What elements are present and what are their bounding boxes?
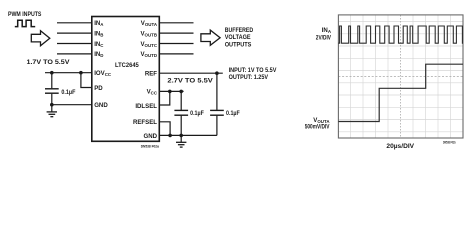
wire INC input	[57, 43, 92, 45]
svg-text:500mV/DIV: 500mV/DIV	[305, 123, 331, 130]
svg-text:VOLTAGE: VOLTAGE	[225, 34, 252, 41]
ground symbol left	[51, 105, 53, 112]
svg-text:VCC: VCC	[147, 89, 158, 96]
node junction PD tap	[79, 71, 83, 75]
node junction REF / C3	[215, 71, 219, 75]
node junction GND/C2	[179, 134, 183, 138]
svg-text:DN538 F02b: DN538 F02b	[443, 140, 456, 144]
svg-text:LTC2645: LTC2645	[115, 62, 139, 69]
svg-text:INC: INC	[94, 41, 104, 48]
svg-text:DN538 F02a: DN538 F02a	[141, 145, 160, 149]
svg-text:GND: GND	[94, 102, 108, 109]
scope gridlines	[338, 15, 463, 138]
node junction GND left	[50, 103, 54, 107]
svg-text:VOUTD: VOUTD	[140, 51, 157, 58]
svg-text:VOUTA: VOUTA	[141, 20, 158, 27]
svg-text:PD: PD	[94, 85, 103, 92]
svg-text:IND: IND	[94, 51, 103, 58]
wire GND pin left	[52, 104, 92, 106]
svg-text:INA: INA	[322, 27, 332, 34]
node junction IDLSEL tap	[168, 90, 172, 94]
ground symbol right	[180, 135, 182, 142]
capacitor C2 0.1uF (VCC)	[180, 91, 182, 110]
svg-text:PWM INPUTS: PWM INPUTS	[8, 11, 42, 18]
svg-text:VOUTC: VOUTC	[140, 41, 157, 48]
wire VOUTB output	[159, 32, 193, 34]
trace VOUTA staircase	[338, 64, 463, 121]
svg-text:2.7V TO 5.5V: 2.7V TO 5.5V	[167, 77, 213, 84]
svg-text:IDLSEL: IDLSEL	[135, 103, 157, 110]
svg-text:INA: INA	[94, 20, 104, 27]
svg-text:REF: REF	[145, 70, 157, 77]
trace INA PWM	[338, 26, 463, 43]
svg-text:VOUTB: VOUTB	[140, 30, 157, 37]
wire IOVCC supply rail	[45, 72, 92, 74]
input block arrow	[31, 31, 50, 46]
svg-text:OUTPUTS: OUTPUTS	[225, 41, 252, 48]
svg-text:OUTPUT: 1.25V: OUTPUT: 1.25V	[229, 74, 269, 81]
PWM waveform symbol	[15, 20, 35, 26]
wire VOUTD output	[159, 53, 193, 55]
svg-text:2V/DIV: 2V/DIV	[316, 35, 332, 42]
svg-text:IOVCC: IOVCC	[94, 70, 112, 77]
scope frame	[338, 15, 463, 138]
wire REF	[159, 72, 223, 74]
wire REFSEL pull-down	[159, 122, 170, 136]
wire IDLSEL pull-up	[159, 91, 170, 105]
svg-text:0.1µF: 0.1µF	[190, 110, 204, 117]
svg-text:BUFFERED: BUFFERED	[225, 27, 254, 34]
IC U1 LTC2645 box	[92, 17, 160, 142]
wire GND bus right	[159, 134, 217, 136]
wire VOUTC output	[159, 43, 193, 45]
capacitor C1 0.1uF (IOVCC)	[51, 73, 53, 89]
node junction at C1 top	[50, 71, 54, 75]
wire VCC supply rail	[159, 90, 183, 92]
capacitor C3 0.1uF (REF)	[216, 73, 218, 110]
svg-text:0.1µF: 0.1µF	[226, 110, 240, 117]
svg-text:0.1µF: 0.1µF	[61, 89, 75, 96]
wire VOUTA output	[159, 22, 193, 24]
wire INA input	[57, 22, 92, 24]
svg-text:1.7V TO 5.5V: 1.7V TO 5.5V	[27, 59, 71, 66]
node junction REFSEL/GND	[168, 134, 172, 138]
svg-text:GND: GND	[143, 133, 157, 140]
svg-text:INB: INB	[94, 30, 103, 37]
svg-text:REFSEL: REFSEL	[133, 119, 157, 126]
scope center crosshair dashed	[400, 15, 402, 138]
wire INB input	[57, 32, 92, 34]
svg-text:20µs/DIV: 20µs/DIV	[386, 143, 414, 150]
wire PD pull-up	[81, 73, 92, 88]
output block arrow	[201, 30, 220, 45]
svg-text:INPUT: 1V TO 5.5V: INPUT: 1V TO 5.5V	[229, 67, 277, 74]
wire IND input	[57, 53, 92, 55]
node junction C2 top	[179, 90, 183, 94]
